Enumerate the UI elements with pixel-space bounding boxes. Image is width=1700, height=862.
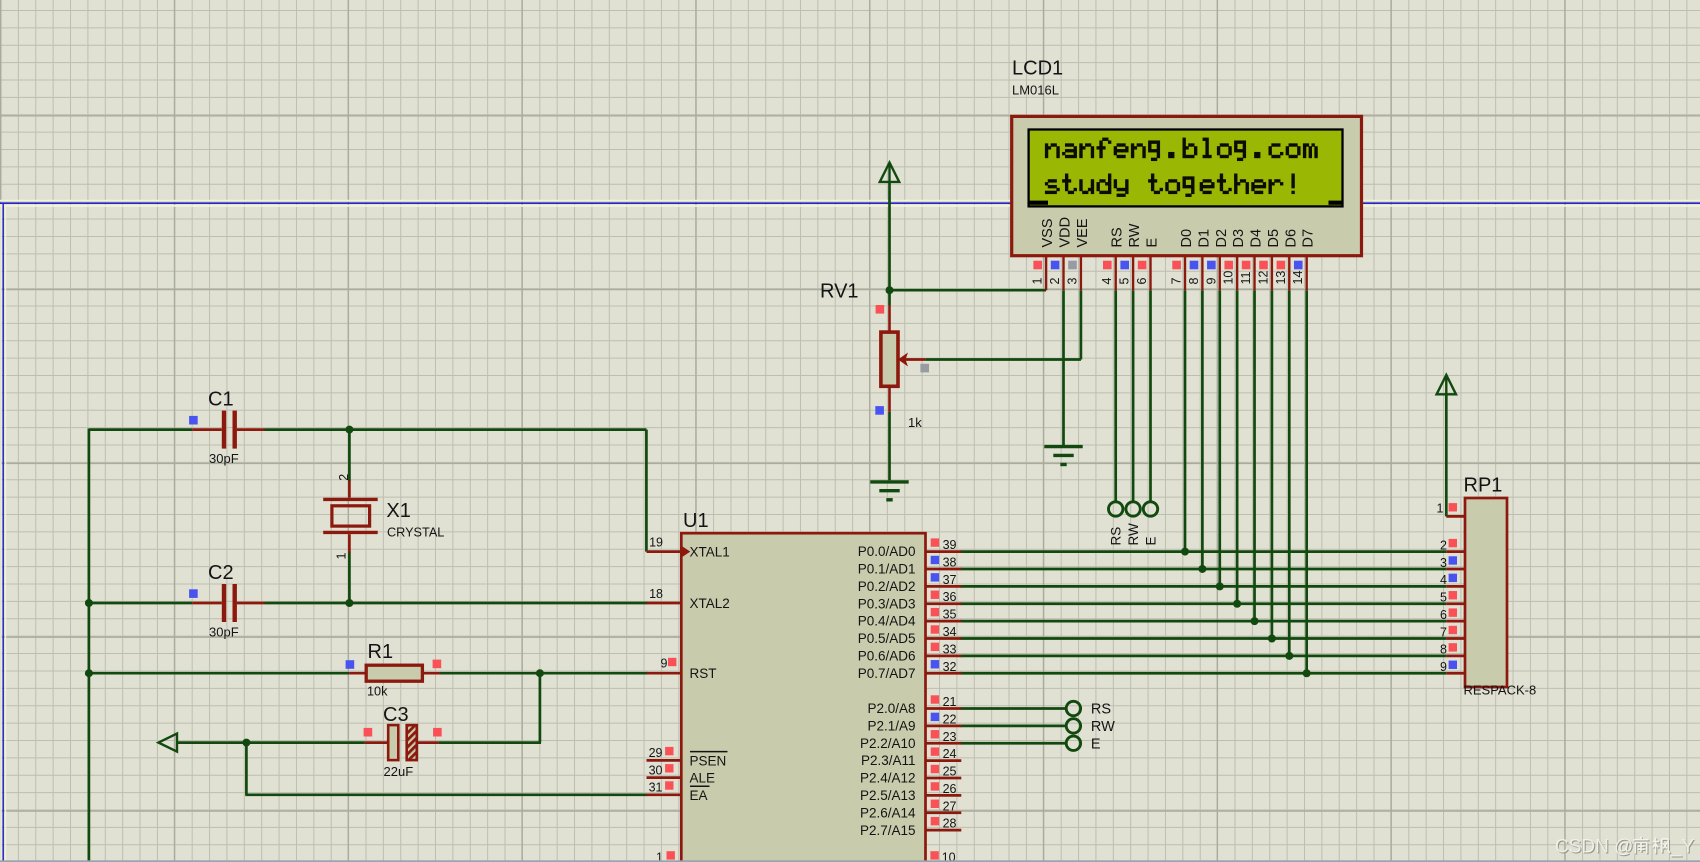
svg-text:D3: D3 bbox=[1231, 229, 1247, 248]
svg-text:E: E bbox=[1091, 736, 1101, 752]
svg-text:LM016L: LM016L bbox=[1012, 83, 1059, 98]
svg-text:U1: U1 bbox=[683, 510, 709, 532]
svg-text:D5: D5 bbox=[1266, 229, 1282, 248]
svg-text:31: 31 bbox=[649, 781, 663, 795]
svg-text:E: E bbox=[1143, 536, 1158, 545]
svg-text:_Y: _Y bbox=[1670, 837, 1695, 858]
svg-text:RW: RW bbox=[1126, 523, 1141, 546]
svg-text:13: 13 bbox=[1274, 271, 1288, 285]
svg-text:D2: D2 bbox=[1214, 229, 1230, 248]
svg-text:10: 10 bbox=[942, 851, 956, 862]
svg-text:21: 21 bbox=[943, 695, 957, 709]
svg-text:P0.3/AD3: P0.3/AD3 bbox=[858, 596, 916, 611]
svg-text:5: 5 bbox=[1118, 278, 1132, 285]
svg-text:35: 35 bbox=[943, 608, 957, 622]
svg-text:9: 9 bbox=[1204, 278, 1218, 285]
svg-text:P2.3/A11: P2.3/A11 bbox=[861, 753, 916, 768]
svg-text:P0.1/AD1: P0.1/AD1 bbox=[858, 562, 916, 577]
svg-text:VEE: VEE bbox=[1075, 218, 1091, 247]
svg-text:9: 9 bbox=[661, 656, 668, 670]
svg-text:1: 1 bbox=[1437, 502, 1444, 516]
svg-text:2: 2 bbox=[337, 474, 351, 481]
svg-text:P0.0/AD0: P0.0/AD0 bbox=[858, 544, 916, 559]
svg-text:5: 5 bbox=[1440, 591, 1447, 605]
svg-text:22: 22 bbox=[943, 712, 957, 726]
svg-text:36: 36 bbox=[943, 590, 957, 604]
svg-text:7: 7 bbox=[1170, 278, 1184, 285]
svg-text:C2: C2 bbox=[208, 562, 234, 584]
svg-text:VSS: VSS bbox=[1040, 218, 1056, 247]
svg-text:RST: RST bbox=[690, 666, 717, 681]
svg-text:29: 29 bbox=[649, 746, 663, 760]
svg-text:D1: D1 bbox=[1196, 229, 1212, 248]
svg-text:P2.5/A13: P2.5/A13 bbox=[860, 788, 916, 803]
svg-text:RS: RS bbox=[1109, 527, 1124, 546]
svg-text:R1: R1 bbox=[368, 641, 394, 663]
svg-text:P2.7/A15: P2.7/A15 bbox=[860, 823, 916, 838]
svg-text:2: 2 bbox=[1440, 538, 1447, 552]
svg-text:32: 32 bbox=[943, 660, 957, 674]
svg-text:RESPACK-8: RESPACK-8 bbox=[1464, 683, 1537, 698]
svg-text:RV1: RV1 bbox=[820, 281, 859, 303]
svg-text:XTAL1: XTAL1 bbox=[690, 545, 730, 560]
svg-text:P2.2/A10: P2.2/A10 bbox=[860, 736, 916, 751]
svg-text:EA: EA bbox=[690, 788, 708, 803]
svg-text:4: 4 bbox=[1440, 573, 1447, 587]
svg-text:1k: 1k bbox=[908, 415, 922, 430]
svg-text:P2.6/A14: P2.6/A14 bbox=[860, 805, 916, 820]
svg-text:D7: D7 bbox=[1301, 229, 1317, 248]
svg-text:3: 3 bbox=[1440, 556, 1447, 570]
svg-text:25: 25 bbox=[943, 765, 957, 779]
svg-text:1: 1 bbox=[656, 851, 663, 862]
svg-text:10k: 10k bbox=[367, 685, 388, 699]
svg-text:D0: D0 bbox=[1179, 229, 1195, 248]
svg-text:P2.4/A12: P2.4/A12 bbox=[860, 771, 916, 786]
svg-text:6: 6 bbox=[1440, 608, 1447, 622]
svg-text:23: 23 bbox=[943, 730, 957, 744]
svg-text:8: 8 bbox=[1187, 278, 1201, 285]
svg-text:ALE: ALE bbox=[690, 771, 716, 786]
svg-text:39: 39 bbox=[943, 538, 957, 552]
svg-text:18: 18 bbox=[649, 587, 663, 601]
svg-text:PSEN: PSEN bbox=[690, 753, 727, 768]
svg-text:RS: RS bbox=[1091, 702, 1111, 718]
svg-text:P2.0/A8: P2.0/A8 bbox=[867, 701, 915, 716]
svg-text:C1: C1 bbox=[208, 388, 234, 410]
svg-text:CSDN @: CSDN @ bbox=[1555, 837, 1633, 858]
svg-text:14: 14 bbox=[1291, 271, 1305, 285]
svg-text:RS: RS bbox=[1110, 227, 1126, 247]
svg-text:19: 19 bbox=[649, 536, 663, 550]
svg-text:1: 1 bbox=[335, 553, 349, 560]
svg-text:P0.2/AD2: P0.2/AD2 bbox=[858, 579, 916, 594]
svg-text:27: 27 bbox=[943, 799, 957, 813]
svg-text:XTAL2: XTAL2 bbox=[690, 596, 730, 611]
svg-text:P0.6/AD6: P0.6/AD6 bbox=[858, 648, 916, 663]
svg-text:11: 11 bbox=[1239, 271, 1253, 284]
svg-text:X1: X1 bbox=[386, 500, 410, 522]
svg-text:D4: D4 bbox=[1249, 229, 1265, 248]
svg-text:RP1: RP1 bbox=[1464, 475, 1503, 497]
svg-text:RW: RW bbox=[1091, 719, 1115, 735]
svg-text:37: 37 bbox=[943, 573, 957, 587]
svg-text:9: 9 bbox=[1440, 660, 1447, 674]
svg-text:1: 1 bbox=[1031, 278, 1045, 285]
svg-text:D6: D6 bbox=[1283, 229, 1299, 248]
svg-text:8: 8 bbox=[1440, 643, 1447, 657]
svg-text:CRYSTAL: CRYSTAL bbox=[387, 526, 444, 540]
svg-text:26: 26 bbox=[943, 782, 957, 796]
svg-text:LCD1: LCD1 bbox=[1012, 58, 1063, 80]
svg-text:10: 10 bbox=[1222, 271, 1236, 285]
svg-text:P0.7/AD7: P0.7/AD7 bbox=[858, 666, 916, 681]
svg-text:30: 30 bbox=[649, 763, 663, 777]
svg-text:VDD: VDD bbox=[1058, 217, 1074, 248]
svg-text:28: 28 bbox=[943, 817, 957, 831]
svg-text:12: 12 bbox=[1256, 271, 1270, 285]
svg-text:22uF: 22uF bbox=[384, 764, 414, 779]
svg-text:7: 7 bbox=[1440, 625, 1447, 639]
svg-text:30pF: 30pF bbox=[209, 451, 239, 466]
svg-text:24: 24 bbox=[943, 747, 957, 761]
svg-text:RW: RW bbox=[1127, 223, 1143, 247]
svg-text:P2.1/A9: P2.1/A9 bbox=[867, 718, 915, 733]
svg-text:33: 33 bbox=[943, 642, 957, 656]
svg-text:E: E bbox=[1145, 238, 1161, 248]
svg-text:30pF: 30pF bbox=[209, 624, 239, 639]
svg-text:C3: C3 bbox=[383, 704, 409, 726]
svg-text:3: 3 bbox=[1065, 278, 1079, 285]
svg-text:6: 6 bbox=[1135, 278, 1149, 285]
svg-text:4: 4 bbox=[1100, 278, 1114, 285]
svg-text:34: 34 bbox=[943, 625, 957, 639]
svg-text:2: 2 bbox=[1048, 278, 1062, 285]
svg-text:P0.5/AD5: P0.5/AD5 bbox=[858, 631, 916, 646]
svg-text:38: 38 bbox=[943, 555, 957, 569]
svg-text:P0.4/AD4: P0.4/AD4 bbox=[858, 614, 916, 629]
